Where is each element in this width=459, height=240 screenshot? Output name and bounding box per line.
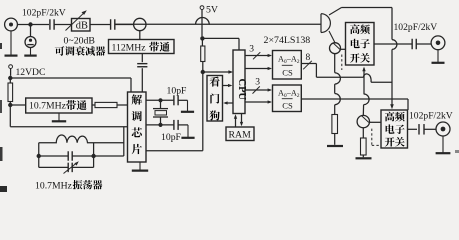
wire xyxy=(424,128,436,130)
capacitor C9 102pF/2kV xyxy=(419,124,424,135)
attenuator arrow xyxy=(66,10,87,30)
demodulator chip U1 解调芯片 xyxy=(128,92,147,162)
svg-text:A0–A2: A0–A2 xyxy=(278,54,300,65)
label 102pF/2kV output2 xyxy=(409,111,453,122)
node B junction xyxy=(8,103,12,107)
wire xyxy=(55,24,72,26)
switch contact circle K2 xyxy=(357,115,381,127)
cascade arrow into U4 xyxy=(362,67,365,95)
ground after C7 xyxy=(178,125,195,138)
wire xyxy=(115,24,134,26)
resistor R4 xyxy=(332,115,338,145)
RF input connector J1 xyxy=(5,18,29,31)
svg-text:3: 3 xyxy=(255,77,260,87)
arrow RAM to CPU xyxy=(234,114,237,127)
svg-text:10pF: 10pF xyxy=(161,132,182,143)
10.7MHz bandpass filter box xyxy=(26,98,92,113)
svg-text:3: 3 xyxy=(249,45,254,55)
label 102pF/2kV for C1 xyxy=(22,7,66,18)
svg-text:CS: CS xyxy=(282,100,293,110)
CPU box xyxy=(233,50,247,114)
resistor R3 xyxy=(201,38,205,70)
svg-text:102pF/2kV: 102pF/2kV xyxy=(22,7,66,18)
control chain with hops xyxy=(335,54,341,115)
wire xyxy=(90,24,111,26)
ground R5 xyxy=(356,157,372,159)
enable wire to decoder2 xyxy=(245,100,272,103)
wire chip pin to C7 xyxy=(146,123,174,127)
svg-text:10pF: 10pF xyxy=(167,85,188,96)
5V terminal xyxy=(200,5,218,37)
label 10pF bottom xyxy=(161,132,182,143)
capacitor C6 10pF xyxy=(174,95,178,105)
ground R4 xyxy=(327,145,343,147)
label 可调衰减器 xyxy=(55,46,106,56)
surge arrester F1 xyxy=(24,27,36,56)
svg-text:8: 8 xyxy=(306,53,311,63)
svg-text:12VDC: 12VDC xyxy=(16,67,46,78)
inductor L1 xyxy=(39,135,124,143)
switch contact circle K1 xyxy=(330,43,346,54)
wire U4 output xyxy=(374,43,412,45)
label 0~20dB xyxy=(64,36,96,47)
capacitor C8 102pF/2kV xyxy=(412,39,416,50)
label 10.7MHz 振荡器 xyxy=(35,180,102,191)
svg-text:10.7MHz: 10.7MHz xyxy=(29,101,67,112)
12V bus wire to demod chip xyxy=(10,78,131,92)
capacitor C7 10pF xyxy=(174,120,178,130)
watchdog box 看门狗 xyxy=(207,76,223,122)
cascade hop over wire2 xyxy=(363,94,369,115)
capacitor C2 xyxy=(111,19,115,30)
svg-text:102pF/2kV: 102pF/2kV xyxy=(409,111,453,122)
resistor R1 xyxy=(8,78,13,105)
label 2×74LS138 xyxy=(264,35,311,46)
label 102pF/2kV output1 xyxy=(394,22,438,33)
wire S1 top throw xyxy=(329,8,392,16)
main RF wire with hop over 5V xyxy=(115,18,321,25)
crystal X1 xyxy=(153,102,168,125)
attenuator box 0-20dB xyxy=(72,19,91,32)
decoder2 output wire xyxy=(301,99,408,110)
wire chip pin to C6 xyxy=(146,98,174,102)
wire xyxy=(10,104,25,106)
resistor R2 xyxy=(92,102,128,107)
ground J2 xyxy=(432,50,445,63)
decoder U3 74LS138 xyxy=(273,85,302,112)
RF changeover switch S1 xyxy=(321,14,330,33)
capacitor C5 coupling xyxy=(137,54,147,93)
ground after C6 xyxy=(178,100,194,112)
variable capacitor C4 xyxy=(39,161,94,173)
RAM box xyxy=(226,127,254,141)
ground under demod chip xyxy=(132,162,148,171)
decoder1 output 8-bus xyxy=(301,53,392,82)
scan edge artifacts xyxy=(0,43,459,192)
bus CPU to decoder1 3 wires xyxy=(245,45,272,60)
capacitor C3 tank fixed xyxy=(39,151,124,161)
label 10pF top xyxy=(167,85,188,96)
dashed link K2 xyxy=(372,129,380,146)
bus CPU to decoder2 3 wires xyxy=(245,77,272,93)
wire 12V down-bus xyxy=(10,105,127,127)
svg-text:RAM: RAM xyxy=(229,129,252,140)
control vertical to switch2 xyxy=(390,8,397,110)
HF electronic switch box U5 xyxy=(381,110,408,148)
wire 5V rail down to demod chip xyxy=(146,72,203,151)
wire to CPU left xyxy=(203,70,233,73)
wire xyxy=(416,43,431,45)
node 12V junction xyxy=(8,76,12,80)
svg-text:dB: dB xyxy=(76,21,88,32)
node R3 junction xyxy=(201,70,205,74)
node tank right xyxy=(91,143,95,168)
12VDC terminal xyxy=(9,65,46,78)
node tank left xyxy=(37,143,41,168)
ground J3 xyxy=(436,136,451,153)
wire vertical feed to oscillator xyxy=(123,127,125,156)
svg-text:5V: 5V xyxy=(206,5,218,16)
arrow CPU to watchdog xyxy=(223,101,233,104)
HF electronic switch box U4 xyxy=(346,23,375,66)
resistor R5 xyxy=(361,128,367,158)
wire U5 output xyxy=(408,128,418,130)
ground under 10.7MHz bandpass xyxy=(52,113,66,121)
dashed link K1 xyxy=(341,55,343,71)
svg-text:112MHz: 112MHz xyxy=(112,42,147,53)
svg-text:CS: CS xyxy=(282,67,293,77)
wire xyxy=(33,24,50,26)
svg-text:102pF/2kV: 102pF/2kV xyxy=(394,22,438,33)
tap circle on RF line xyxy=(134,18,146,39)
svg-text:0~20dB: 0~20dB xyxy=(64,36,96,47)
RF output connector J2 xyxy=(431,36,445,50)
enable wire to decoder1 xyxy=(245,67,272,70)
RF output connector J3 xyxy=(436,122,450,136)
wire 5V to CPU xyxy=(202,38,239,50)
node A junction xyxy=(28,22,32,26)
svg-text:A0–A2: A0–A2 xyxy=(278,88,300,99)
arrow CPU to RAM xyxy=(240,114,243,127)
112MHz bandpass filter box xyxy=(109,40,175,54)
svg-text:2×74LS138: 2×74LS138 xyxy=(264,35,311,46)
arrow watchdog to CPU xyxy=(223,84,233,87)
node 5V junction xyxy=(200,36,204,40)
decoder U2 74LS138 xyxy=(273,51,302,80)
capacitor C1 102pF/2kV xyxy=(50,19,54,30)
ground for J1 xyxy=(5,31,18,56)
svg-text:10.7MHz: 10.7MHz xyxy=(35,180,73,191)
wire S1 bottom throw xyxy=(329,31,335,43)
